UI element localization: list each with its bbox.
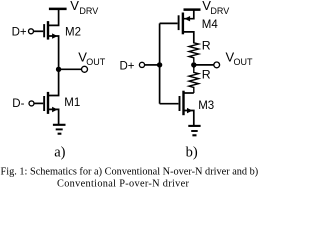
svg-text:R: R — [202, 38, 211, 52]
svg-text:D-: D- — [12, 98, 24, 110]
svg-text:M2: M2 — [65, 27, 81, 39]
svg-text:M1: M1 — [64, 97, 80, 109]
svg-text:DRV: DRV — [210, 6, 229, 16]
svg-text:Conventional P-over-N driver: Conventional P-over-N driver — [57, 179, 190, 190]
svg-text:a): a) — [54, 144, 65, 160]
svg-text:D+: D+ — [12, 27, 27, 39]
svg-text:OUT: OUT — [234, 57, 254, 67]
svg-text:R: R — [202, 68, 211, 82]
svg-text:M3: M3 — [198, 100, 214, 112]
svg-text:b): b) — [186, 144, 198, 160]
svg-text:OUT: OUT — [86, 57, 106, 67]
svg-text:V: V — [70, 0, 79, 13]
svg-text:Fig. 1: Schematics for a) Conv: Fig. 1: Schematics for a) Conventional N… — [1, 167, 259, 178]
svg-text:M4: M4 — [202, 19, 219, 31]
svg-text:DRV: DRV — [79, 6, 98, 16]
svg-text:D+: D+ — [120, 60, 135, 72]
